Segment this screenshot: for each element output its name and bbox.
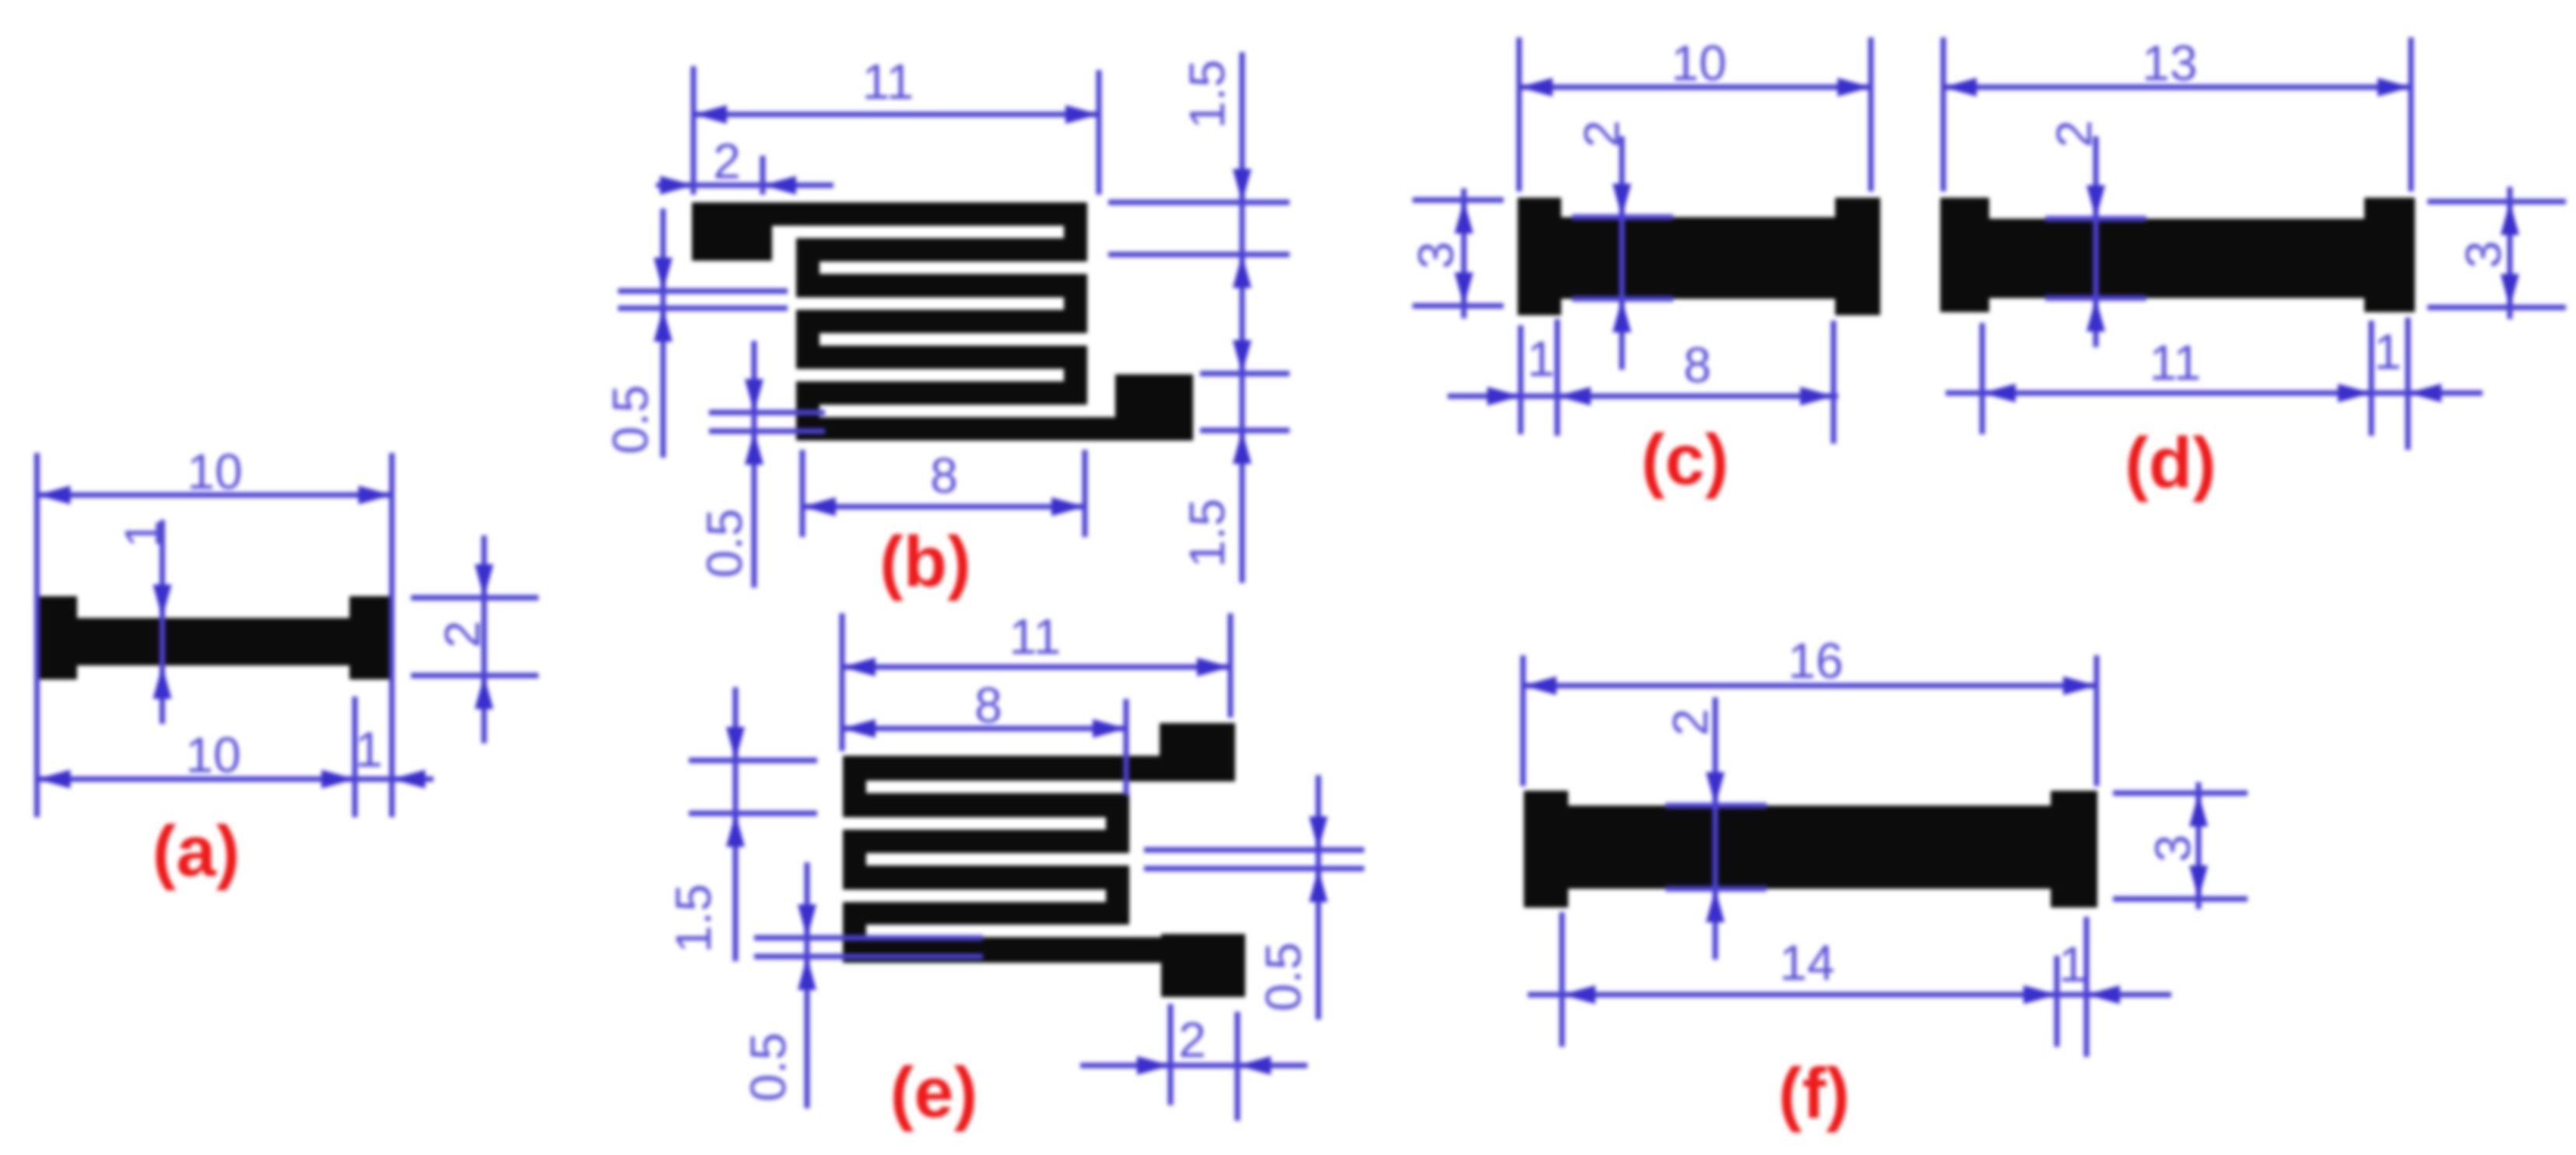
svg-text:1: 1 <box>355 721 383 778</box>
svg-text:(e): (e) <box>890 1053 977 1132</box>
dimension "10" and "1" bottom (a) <box>37 697 434 817</box>
svg-text:1: 1 <box>2058 936 2086 992</box>
dimension "3" grip height right (f) <box>2113 782 2248 909</box>
svg-text:16: 16 <box>1788 633 1843 689</box>
svg-text:(c): (c) <box>1641 420 1728 500</box>
dimension "1.5" upper right (b) <box>1108 52 1290 583</box>
label (c) <box>1641 420 1728 500</box>
dimension "13" overall width top (d) <box>1943 35 2411 191</box>
specimen (c) left grip block <box>1518 198 1561 315</box>
specimen (f) gauge bar <box>1568 806 2051 889</box>
svg-text:(a): (a) <box>153 812 240 891</box>
label (d) <box>2125 423 2216 503</box>
specimen (a) right grip block <box>349 596 392 679</box>
dimension "2" bar thickness (f) <box>1662 697 1767 960</box>
svg-text:11: 11 <box>862 54 914 110</box>
specimen (d) left grip block <box>1940 198 1989 312</box>
dimension "1" bar thickness (a) <box>114 520 172 724</box>
svg-text:1: 1 <box>2374 324 2402 380</box>
svg-text:0.5: 0.5 <box>740 1033 796 1102</box>
serpentine (b) bottom-right contact pad <box>1115 374 1193 441</box>
dimension "11" overall width top (b) <box>693 54 1099 195</box>
dimension "0.5" track gap left (b) <box>602 209 788 458</box>
svg-text:1: 1 <box>114 520 170 548</box>
dimension "2" pad width (b) <box>656 133 834 195</box>
svg-text:1.5: 1.5 <box>1179 499 1235 568</box>
serpentine (e) bottom-right contact pad <box>1161 934 1245 997</box>
svg-text:10: 10 <box>185 727 240 783</box>
svg-text:0.5: 0.5 <box>602 385 658 455</box>
svg-text:2: 2 <box>2046 120 2102 148</box>
specimen (d) right grip block <box>2364 198 2415 312</box>
dimension "0.5" track width lower left (b) <box>697 341 825 588</box>
dimension "10" overall width top (a) <box>37 444 392 817</box>
dimension "2" pad width bottom (e) <box>1080 1004 1307 1121</box>
serpentine (e) top-right contact pad <box>1160 723 1235 781</box>
label (f) <box>1778 1054 1850 1133</box>
dimension "11" overall width top (e) <box>842 609 1230 751</box>
dimension "14" and "1" bottom (f) <box>1528 912 2171 1057</box>
svg-text:2: 2 <box>1662 708 1718 736</box>
serpentine (e) meander body <box>843 756 1163 963</box>
svg-text:3: 3 <box>1408 241 1464 269</box>
svg-text:8: 8 <box>930 448 958 504</box>
svg-text:1.5: 1.5 <box>665 884 721 953</box>
dimension "8" meander length (e) <box>842 677 1126 795</box>
dimension "16" overall width top (f) <box>1523 633 2097 786</box>
svg-text:1.5: 1.5 <box>1179 60 1235 129</box>
specimen (c) right grip block <box>1835 198 1880 315</box>
label (a) <box>153 812 240 891</box>
dimension "2" bar thickness (c) <box>1572 120 1673 370</box>
svg-text:10: 10 <box>1671 35 1726 91</box>
svg-text:3: 3 <box>2455 240 2511 269</box>
dimension "1.5" lower right pad height (b) <box>1179 340 1290 567</box>
dimension "3" grip height left (c) <box>1408 188 1504 318</box>
svg-text:8: 8 <box>1683 337 1711 393</box>
svg-text:2: 2 <box>713 133 741 189</box>
specimen (f) left grip block <box>1524 791 1568 907</box>
dimension "1" and "8" bottom (c) <box>1448 319 1838 444</box>
dimension "10" overall width top (c) <box>1519 35 1871 191</box>
dimension "1.5" upper left (e) <box>665 687 817 961</box>
svg-text:0.5: 0.5 <box>697 509 753 578</box>
specimen (a) gauge bar <box>77 618 349 665</box>
serpentine (b) meander body <box>772 202 1193 441</box>
dimension "2" grip height right side (a) <box>411 535 539 743</box>
dimension "3" grip height right (d) <box>2427 187 2566 319</box>
serpentine (b) top-left contact pad <box>692 202 772 261</box>
label (e) <box>890 1053 977 1132</box>
specimen (a) dog-bone body: left grip block <box>35 596 77 679</box>
svg-text:14: 14 <box>1779 935 1834 991</box>
svg-text:(f): (f) <box>1778 1054 1850 1133</box>
svg-text:11: 11 <box>2150 335 2201 391</box>
specimen (c) gauge bar <box>1561 217 1835 299</box>
dimension "2" bar thickness (d) <box>2045 120 2146 347</box>
svg-text:2: 2 <box>434 620 490 648</box>
svg-text:(b): (b) <box>879 522 970 602</box>
dimension "11" and "1" bottom (d) <box>1946 318 2483 450</box>
svg-text:1: 1 <box>1527 331 1555 387</box>
svg-text:0.5: 0.5 <box>1255 943 1311 1012</box>
dimension "0.5" lower left (e) <box>740 862 983 1108</box>
svg-text:13: 13 <box>2142 35 2197 91</box>
svg-text:11: 11 <box>1009 609 1061 665</box>
svg-text:10: 10 <box>187 444 242 500</box>
svg-text:2: 2 <box>1574 120 1630 148</box>
svg-text:(d): (d) <box>2125 423 2216 503</box>
svg-text:2: 2 <box>1178 1012 1206 1068</box>
dimension "8" meander length bottom (b) <box>802 448 1085 537</box>
dimension "0.5" right side (e) <box>1144 775 1364 1020</box>
specimen (d) gauge bar <box>1989 219 2364 298</box>
label (b) <box>879 522 970 602</box>
svg-text:3: 3 <box>2145 834 2201 862</box>
specimen (f) right grip block <box>2051 791 2097 907</box>
svg-text:8: 8 <box>974 677 1002 733</box>
